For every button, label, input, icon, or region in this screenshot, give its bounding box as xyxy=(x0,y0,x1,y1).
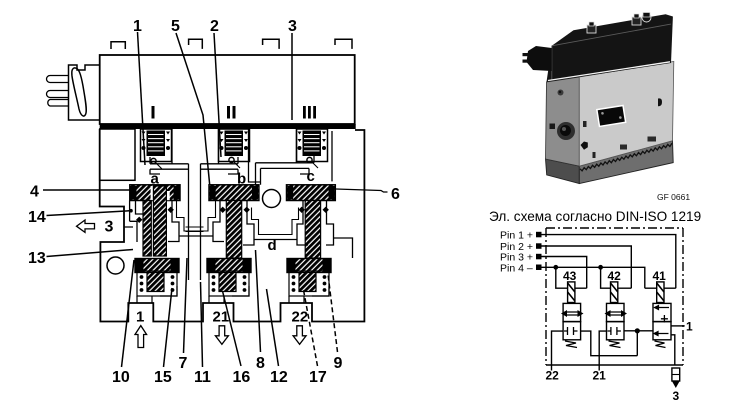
wire pin2 xyxy=(542,246,632,288)
svg-text:42: 42 xyxy=(608,269,622,283)
roman numeral I xyxy=(152,106,155,119)
port 22 arrow down xyxy=(293,326,306,345)
RIGHT-PHOTO xyxy=(523,13,691,203)
leader 12 xyxy=(267,289,279,366)
mark 1 xyxy=(593,152,596,158)
wire pin1 xyxy=(542,235,676,289)
connector housing xyxy=(69,65,100,120)
junction dot supply xyxy=(635,328,640,333)
valve 43 arrows upper xyxy=(567,312,579,315)
leader 7 xyxy=(184,258,188,353)
leader 9 xyxy=(326,258,338,352)
spool column III xyxy=(305,201,320,259)
svg-text:15: 15 xyxy=(154,369,172,386)
mounting bracket 2 xyxy=(189,39,203,49)
solenoid symbol 41 xyxy=(657,282,664,303)
svg-text:GF 0661: GF 0661 xyxy=(657,192,690,202)
left port inner xyxy=(560,125,571,136)
valve cartridge 2 lower xyxy=(207,259,251,304)
svg-text:7: 7 xyxy=(179,355,188,372)
spool column II xyxy=(226,201,241,259)
bar slots xyxy=(151,186,170,200)
section cutout between II and III xyxy=(249,129,333,182)
base left face xyxy=(546,159,580,184)
lower body outline xyxy=(100,129,365,322)
chamber d outline xyxy=(243,201,308,246)
solenoid symbol 42 xyxy=(611,282,618,303)
spool column I xyxy=(143,186,166,256)
Pin 3 terminal xyxy=(536,254,542,259)
wire 41 exhaust xyxy=(671,335,675,365)
bar seals xyxy=(131,186,335,200)
top screw tab 2 xyxy=(632,14,641,25)
black solenoid housing xyxy=(547,14,673,82)
svg-text:11: 11 xyxy=(194,369,211,386)
lower-left block xyxy=(107,257,124,274)
left port outer xyxy=(557,122,575,140)
connector pin 3 xyxy=(48,100,69,107)
chamber left of column I xyxy=(124,201,143,243)
mounting bracket 3 xyxy=(263,39,280,49)
junction dot 42 xyxy=(598,265,603,270)
Pin 2 terminal xyxy=(536,243,542,249)
mark 22 xyxy=(648,137,657,142)
valve 43 boxes xyxy=(563,303,581,321)
svg-text:8: 8 xyxy=(256,355,265,372)
svg-text:9: 9 xyxy=(334,355,343,372)
wire 41 to port 1 xyxy=(671,325,685,327)
leader 6 xyxy=(336,189,388,192)
wire pin4 common xyxy=(542,267,645,288)
housing bottom band xyxy=(100,124,356,129)
vent circle xyxy=(263,190,281,208)
valve 41 lower arrow xyxy=(654,332,669,336)
svg-text:6: 6 xyxy=(391,186,400,203)
svg-text:5: 5 xyxy=(171,18,180,35)
coil loop 42 xyxy=(601,267,632,288)
svg-text:3: 3 xyxy=(288,18,297,35)
distributor bar segment b xyxy=(209,185,259,201)
channel break marks xyxy=(186,227,204,232)
distributor bar segment c xyxy=(287,185,336,201)
wire supply link 43 xyxy=(581,331,638,356)
port 21 arrow down xyxy=(215,326,228,345)
valve 43 spring xyxy=(565,341,577,348)
valve cartridge 3 lower xyxy=(287,259,331,304)
valve 42 arrows upper xyxy=(610,312,622,315)
svg-text:13: 13 xyxy=(28,250,46,267)
connector pin 2 xyxy=(47,91,69,98)
port 1 arrow up xyxy=(135,326,147,348)
leader 8 xyxy=(256,250,261,352)
frame xyxy=(546,228,683,365)
svg-text:22: 22 xyxy=(546,369,560,383)
leader 2 xyxy=(214,33,221,157)
svg-text:Pin 1 +: Pin 1 + xyxy=(500,230,533,242)
leader 13 xyxy=(47,250,134,257)
top screw tab 1 xyxy=(587,22,596,33)
mounting bracket 1 xyxy=(111,42,125,49)
leader 10 xyxy=(122,260,135,367)
leader 14 xyxy=(47,211,131,216)
svg-text:3: 3 xyxy=(673,389,680,403)
body left face xyxy=(546,77,580,166)
exhaust arrow left xyxy=(77,220,95,232)
svg-text:1: 1 xyxy=(136,309,144,326)
side connector xyxy=(527,46,552,71)
roman numeral II xyxy=(227,106,236,119)
svg-text:22: 22 xyxy=(292,309,309,326)
pentagon port xyxy=(581,142,588,150)
svg-text:10: 10 xyxy=(112,369,130,386)
junction dot 43 xyxy=(553,265,558,270)
front connector socket xyxy=(597,105,626,126)
leader 16 xyxy=(223,291,242,366)
svg-text:4: 4 xyxy=(30,184,39,201)
distributor bar segment a xyxy=(130,185,180,201)
wire junction down xyxy=(636,331,638,356)
svg-text:21: 21 xyxy=(593,369,607,383)
Pin 1 terminal xyxy=(536,232,542,238)
valve 42 boxes xyxy=(607,303,625,321)
solenoid symbol 43 xyxy=(568,282,575,303)
svg-text:41: 41 xyxy=(653,269,667,283)
leader 4 xyxy=(43,189,130,191)
svg-text:c: c xyxy=(307,168,315,185)
SCHEMATIC xyxy=(489,209,701,403)
valve 42 spring xyxy=(609,341,621,348)
wire 42 to junction xyxy=(624,330,653,332)
valve 41 blocked xyxy=(661,315,668,323)
small square port xyxy=(550,124,556,130)
chamber between I and II xyxy=(168,201,224,242)
svg-text:12: 12 xyxy=(270,369,288,386)
mark 3 xyxy=(583,121,587,127)
mark 21 xyxy=(620,145,627,150)
wire 43 out to 22 xyxy=(552,331,564,370)
pilot pipe III xyxy=(256,156,315,185)
coil loop 41 xyxy=(645,287,676,289)
frame bottom / exhaust rail xyxy=(546,364,683,366)
valve 41 boxes xyxy=(653,303,671,321)
pilot channel down (T) xyxy=(189,164,201,280)
base front face xyxy=(579,141,673,184)
left white box of valve body xyxy=(100,129,135,180)
base serrated top edge xyxy=(580,143,672,171)
coil loop 43 xyxy=(556,267,587,288)
svg-text:3: 3 xyxy=(105,219,114,236)
leader 17 xyxy=(304,290,318,366)
leader 1 xyxy=(138,32,146,165)
body front face xyxy=(579,62,674,167)
top body housing xyxy=(100,55,355,124)
svg-text:2: 2 xyxy=(210,18,219,35)
Pin 4 terminal xyxy=(536,265,542,271)
section cutout between I and II xyxy=(172,129,219,164)
svg-text:43: 43 xyxy=(563,269,577,283)
svg-text:Pin 4 –: Pin 4 – xyxy=(500,263,533,275)
leader 5 xyxy=(176,33,210,188)
wire 42 out to 21 xyxy=(599,331,606,370)
connector pins xyxy=(523,53,529,56)
svg-text:Эл. схема согласно DIN-ISO 121: Эл. схема согласно DIN-ISO 1219 xyxy=(489,209,701,224)
leader 11 xyxy=(201,282,203,367)
svg-text:16: 16 xyxy=(233,369,251,386)
valve 41 upper arrow xyxy=(655,306,670,310)
solenoid I cartridge xyxy=(141,129,172,169)
valve 42 blocked lower xyxy=(607,327,621,335)
roman numeral III xyxy=(303,106,316,119)
leader 15 xyxy=(164,288,173,367)
muffler port 3 xyxy=(672,368,680,388)
valve cartridge 1 lower xyxy=(135,259,179,304)
mounting bracket 4 xyxy=(335,39,352,49)
svg-text:14: 14 xyxy=(28,209,46,226)
svg-text:1: 1 xyxy=(686,320,693,334)
D mark xyxy=(658,98,662,106)
connector pin 1 xyxy=(47,76,69,83)
screw hole top-left xyxy=(558,90,564,96)
LEFT-CROSS-SECTION xyxy=(28,18,400,386)
wire pin3 xyxy=(542,257,587,289)
solenoid III cartridge xyxy=(297,129,328,168)
top screw tab 3 xyxy=(642,13,651,23)
connector blade xyxy=(72,68,86,116)
valve 41 spring xyxy=(655,341,666,348)
housing edge highlights xyxy=(552,24,671,80)
svg-text:17: 17 xyxy=(309,369,327,386)
pilot pipe I-II xyxy=(150,157,238,174)
leader 3 xyxy=(291,33,293,120)
seal dots middle xyxy=(136,207,329,223)
valve 43 blocked lower xyxy=(564,327,578,335)
chamber right of column III xyxy=(326,201,353,259)
solenoid II cartridge xyxy=(219,129,250,168)
